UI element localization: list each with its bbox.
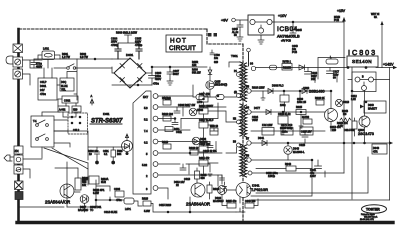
zener D843 [284,146,292,154]
svg-text:C602: C602 [64,99,71,103]
svg-text:24R: 24R [311,78,316,81]
inductor L802 [270,65,277,70]
transistor Q803 [359,116,370,127]
AC plug P601 [6,56,13,64]
optocoupler IC841 [236,183,251,198]
IC601 pin 5.02 [153,162,158,167]
connector pin CN1 [14,155,23,164]
wire mid-left feed [88,146,128,148]
transformer pin P1 [237,73,241,77]
svg-text:R625 47u: R625 47u [226,200,237,203]
capacitor C615 [220,175,227,189]
relay contact S601 [67,67,70,70]
svg-text:90: 90 [333,77,336,80]
svg-text:50: 50 [234,34,237,37]
diode D841 [262,141,267,146]
wire to transformer top [229,52,249,67]
wire under opto [222,195,258,213]
svg-text:B34: B34 [117,153,122,156]
secondary rail +15 out [251,142,392,144]
svg-text:13R: 13R [192,64,197,67]
svg-text:D808 PLC: D808 PLC [272,85,284,88]
svg-text:D608: D608 [197,109,204,112]
diode D618 [122,141,133,152]
svg-text:D871 R12: D871 R12 [281,124,293,127]
inductor L803 [326,59,338,64]
thermistor TH602 [13,69,23,79]
wire return outer [251,199,390,201]
transformer T601 secondary winding [244,63,246,101]
svg-text:TOSTER: TOSTER [366,208,380,212]
transformer pin N2 [237,120,241,124]
ground C607 [167,79,173,85]
svg-text:D841: D841 [258,137,265,140]
transformer pin S5 [247,89,251,93]
resistor D871 [281,128,293,136]
resistor R618 [190,150,198,155]
svg-text:820: 820 [214,61,219,64]
wire opto output [218,175,236,190]
svg-text:+10V: +10V [278,14,287,18]
svg-text:Q802: Q802 [303,87,310,90]
capacitor C613 [180,164,189,174]
capacitor C621 [95,147,100,161]
capacitor C616 [207,142,216,150]
ground C846 [237,30,243,41]
svg-text:C617 47R: C617 47R [199,93,210,96]
wire Q603 top [55,162,78,185]
resistor R843 [286,166,296,171]
svg-text:C61B 100: C61B 100 [199,143,210,146]
svg-text:D477: D477 [254,107,261,110]
degauss posistor box [38,78,57,100]
wire inter-rail c [281,124,285,134]
svg-text:R87B 1: R87B 1 [283,61,292,64]
svg-text:S5: S5 [246,86,250,89]
capacitor C607 [167,67,173,79]
secondary rail mid [251,127,331,132]
diode D810 [266,110,271,115]
svg-text:R816 1/2W: R816 1/2W [252,87,265,90]
svg-text:C814 50u: C814 50u [344,129,355,132]
HOT CIRCUIT label box [166,35,202,52]
diode D809 [302,89,307,94]
IC601 pin 5.2 [153,116,158,121]
svg-text:IC601: IC601 [103,113,110,116]
module filter box [318,58,345,80]
svg-text:+142V: +142V [383,63,394,67]
line filter L601 [42,51,55,60]
svg-text:C611: C611 [176,131,182,134]
capacitor C815 box [300,127,313,135]
wire Q603 [67,163,88,212]
transformer pin S8 [247,158,251,162]
svg-text:SE140N: SE140N [352,59,372,64]
svg-text:T601: T601 [231,54,238,58]
capacitor C845 [290,27,296,29]
degauss connector dashed box [68,113,88,134]
svg-text:ICM 12W: ICM 12W [262,124,273,127]
svg-text:C6LP: C6LP [40,80,47,84]
svg-text:R618 1k: R618 1k [189,147,199,150]
wire feedback loop [251,160,312,196]
terminal arrow A [90,99,94,105]
svg-text:D6Q: D6Q [61,81,66,84]
svg-text:R820B: R820B [283,66,291,70]
svg-text:D601: D601 [126,53,134,57]
svg-text:L6P1: L6P1 [125,208,131,211]
IC601 package outline [133,91,151,194]
resistor R623 [143,201,151,206]
svg-text:P1: P1 [234,70,238,73]
capacitor C611 [172,119,181,129]
svg-text:6.2: 6.2 [144,141,148,145]
resistor R626 [245,203,254,208]
resistor R616 [207,185,212,193]
resistor R611 [165,127,173,132]
resistor D848 [372,144,387,154]
svg-text:R825: R825 [296,106,303,109]
svg-text:PCB: PCB [334,19,339,22]
wire +10V [272,22,344,27]
wire bottom mid [151,197,236,212]
resistor R806 [303,119,312,124]
box ICM [262,128,274,136]
resistor R613 [163,144,171,149]
svg-text:2SA564A/OR: 2SA564A/OR [45,200,70,205]
svg-text:470u: 470u [153,82,159,86]
capacitor C609 [174,107,183,116]
hot/cold isolation boundary (dashed top) [19,28,207,30]
wire pin 2a [158,174,218,176]
fuse F602 [15,181,24,190]
svg-text:250V: 250V [111,40,117,44]
svg-text:10-03 2001 CTV: 10-03 2001 CTV [360,219,375,221]
junction dots middle [189,152,191,154]
svg-text:+5V PCB: +5V PCB [281,40,291,43]
wire pin 5.2 [158,103,218,119]
svg-text:4700p: 4700p [111,43,119,47]
transistor Q802 [325,109,338,122]
resistor R627 [75,178,81,190]
transformer pin S4 [251,66,255,70]
IC601 pin 5.3 [153,105,158,110]
box H20 [72,106,81,112]
transformer pin S7 [247,141,251,145]
wire pin 6.2 [158,141,210,143]
svg-text:ZN: ZN [15,149,19,153]
svg-text:R823 2K: R823 2K [315,97,325,100]
svg-text:R843: R843 [285,163,292,166]
wire degauss [44,59,77,100]
resistor L970 [196,95,204,100]
transistor Q602 [191,183,205,197]
svg-text:C612 Th.NLF: C612 Th.NLF [199,119,214,122]
zener D820 [364,101,386,113]
resistor R625 [227,203,236,208]
wire WHT SI [381,22,383,68]
capacitor C619 [89,176,99,184]
svg-text:470u: 470u [116,199,122,202]
resistor R612 [163,100,171,105]
wire +15V rail top [344,18,352,199]
secondary rail S8 feedback [251,159,312,161]
capacitor C806 [115,191,124,197]
svg-text:5PT: 5PT [82,180,87,183]
hot/cold isolation boundary (transformer core dash) [242,44,244,182]
box C826 [278,116,288,124]
capacitor C828 [280,95,289,102]
capacitor C825b [302,131,308,143]
svg-text:B: B [362,76,364,79]
junction dots rails [330,90,332,92]
svg-text:R614 47k: R614 47k [199,157,210,160]
IC601 pin 2a [153,173,158,178]
capacitor C816 [305,68,316,83]
svg-text:R610 102: R610 102 [162,113,173,116]
wire degauss connector [54,99,76,131]
wire pin 3 [158,188,168,199]
wire lower rail [38,55,112,68]
resistor R610 [163,116,171,121]
svg-text:470u: 470u [40,92,46,96]
svg-text:C843 103: C843 103 [245,200,256,203]
svg-text:A: A [91,94,93,98]
svg-text:28V 3.3: 28V 3.3 [162,97,171,100]
connector pin CN2 [14,165,23,174]
svg-text:H20: H20 [73,109,78,112]
wire stack to transformer [208,111,237,163]
svg-text:10k: 10k [82,184,87,187]
connector C602 box [62,96,78,103]
zener D813 [335,99,342,106]
svg-text:160V: 160V [310,175,316,178]
capacitor C606 [149,70,156,85]
svg-text:24V: 24V [40,88,45,92]
resistor R614 [199,160,208,166]
transistor Q603 [60,184,74,198]
ground ICB04 [258,35,264,44]
wire bridge bottom [112,85,152,88]
svg-text:5: 5 [146,152,148,156]
svg-text:4700p: 4700p [135,43,143,47]
svg-text:S4: S4 [250,63,254,66]
svg-text:400V: 400V [155,77,161,81]
svg-text:MA4277: MA4277 [368,108,378,111]
svg-text:A-002: A-002 [59,109,66,112]
wire bridge left [112,67,114,73]
IC803 inner regulator box [352,72,376,92]
svg-text:C609 R617 1W: C609 R617 1W [178,104,196,107]
FET Q601 [206,81,214,89]
box A-002 [58,106,69,112]
logo TOSTER oval [362,205,387,213]
diode D808 [268,89,273,94]
wire bridge + out [146,67,207,73]
wire inter-rail b [298,91,302,101]
ICB04 regulator body [248,15,274,35]
diode D801b [299,65,305,70]
capacitor C702 [31,59,37,68]
svg-text:Q804: Q804 [358,129,365,132]
diode D605 [208,67,212,75]
svg-text:C825: C825 [299,144,306,147]
capacitor C817 [327,68,338,83]
fuse F601 [13,44,23,53]
svg-text:400V: 400V [36,65,42,69]
ground chassis bus (thick bottom bar) [17,221,393,224]
svg-text:+9V: +9V [221,19,228,23]
svg-text:CIRCUIT: CIRCUIT [169,45,196,52]
svg-text:R613: R613 [162,141,169,144]
svg-text:5.3: 5.3 [144,106,148,110]
diode D606 [192,137,200,145]
svg-text:2SB1430: 2SB1430 [309,90,325,94]
wire relay diagonal a [44,148,88,163]
capacitor C821 [315,160,326,177]
capacitor C612 [199,122,208,128]
svg-text:T-1: T-1 [33,120,37,123]
transformer T601 primary winding [240,62,242,100]
wire pin 7.4 [158,129,190,131]
wire pin 5.3 [158,106,226,108]
svg-text:C615 R619: C615 R619 [159,204,172,207]
arrow +15V [342,17,346,22]
capacitor C618b [199,146,208,152]
wire relay out [42,131,88,160]
fuse R820 [282,64,292,71]
svg-text:C806: C806 [114,188,121,191]
svg-text:+15V: +15V [337,9,346,13]
svg-text:9A: 9A [374,16,377,19]
svg-text:10u: 10u [214,57,219,60]
svg-text:C613: C613 [184,178,191,181]
svg-text:C826 KL12: C826 KL12 [278,113,291,116]
svg-text:C616 2k 5%: C616 2k 5% [203,150,217,153]
resistor R609 [199,108,208,114]
svg-text:2: 2 [146,174,148,178]
relay RL601 box [31,116,54,147]
svg-text:R616: R616 [213,188,220,191]
svg-text:2SA564AOR: 2SA564AOR [186,202,210,207]
hot/cold isolation boundary (dashed below opto) [242,198,244,221]
ground chassis bus (thick left bar) [17,29,20,221]
svg-text:1.2 7W: 1.2 7W [62,56,71,59]
capacitor C846 [237,25,243,27]
svg-text:7.4: 7.4 [144,129,148,133]
svg-text:C845: C845 [296,29,302,32]
svg-text:220: 220 [332,129,337,132]
terminal +B [247,48,251,52]
box M38 [210,128,218,135]
svg-text:R623: R623 [142,198,149,201]
thermistor TH601 [13,57,23,67]
resistor L971 [216,95,224,100]
transformer pin B3 [237,143,241,147]
svg-text:NU2: NU2 [101,181,106,184]
svg-text:C814 SLRE: C814 SLRE [104,211,118,214]
diode D617 [80,195,89,204]
svg-text:L601: L601 [43,47,49,51]
svg-text:YEL: YEL [61,89,66,92]
svg-text:MA4302J: MA4302J [213,200,224,203]
svg-text:R603 8M2.2 1/2W: R603 8M2.2 1/2W [116,31,137,35]
resistor R823 [316,100,324,105]
transformer pin P4 [237,94,241,98]
IC803 body SE140N [347,56,378,67]
wire AC to filter [23,60,43,85]
resistor R835 [352,121,357,129]
bridge rectifier D601-D604 [114,58,146,88]
junction node [94,58,96,60]
secondary rail S5 [251,90,331,92]
hot/cold isolation boundary (dashed step) [207,29,243,44]
IC601 pin EXT [153,94,158,99]
svg-text:100u 25: 100u 25 [297,101,307,104]
svg-text:1.22: 1.22 [351,98,356,101]
svg-text:S6: S6 [246,107,250,110]
IC601 pin 3 [153,186,158,191]
resistor R825 [296,110,306,115]
transformer pin S6 [247,110,251,114]
svg-text:IC841: IC841 [252,184,260,188]
resistor R848 zigzag [340,118,351,122]
svg-text:5.3W: 5.3W [144,210,150,213]
svg-text:L970: L970 [197,101,203,104]
wire return inner [256,157,368,193]
svg-text:680: 680 [201,177,206,180]
wire inter-rail d [299,115,303,129]
svg-text:C6L2: C6L2 [73,128,80,132]
svg-text:120Vp: 120Vp [268,175,276,178]
IC601 pin 6.2 [153,139,158,144]
svg-text:47R: 47R [373,151,378,154]
wire bottom hot return [19,180,142,207]
svg-text:S7: S7 [246,138,250,141]
varistor label box ZNR [14,146,23,154]
diode D610 [218,186,227,195]
inductor L6P1 [124,198,134,204]
wire stack column [203,92,205,175]
svg-text:(4): (4) [234,91,237,94]
svg-text:3: 3 [146,187,148,191]
svg-text:PCB: PCB [292,51,297,54]
svg-text:S8: S8 [246,155,250,158]
svg-text:5.02: 5.02 [142,163,148,167]
svg-text:D601: D601 [40,84,47,88]
svg-text:5.1: 5.1 [104,153,108,156]
zener D608 [189,108,197,116]
primary rail [193,85,237,97]
capacitor C605 [136,43,142,59]
resistor R565 [111,150,116,157]
secondary rail S6 [251,111,325,113]
capacitor C604 [115,43,121,59]
wire connector out [23,159,42,178]
wire pin 5 [158,147,237,153]
wire bridge top [112,58,130,59]
svg-text:N2: N2 [233,118,237,121]
svg-text:TC: TC [90,209,94,212]
svg-text:10: 10 [89,153,92,156]
AC plug P502 [4,155,10,161]
svg-text:6.8 7W: 6.8 7W [80,56,89,59]
svg-text:500V: 500V [173,73,179,76]
svg-text:56R 2W: 56R 2W [192,72,201,75]
svg-text:HOT: HOT [170,38,187,45]
filter block FL602 [15,192,23,200]
svg-text:TLP621GR: TLP621GR [250,188,268,192]
